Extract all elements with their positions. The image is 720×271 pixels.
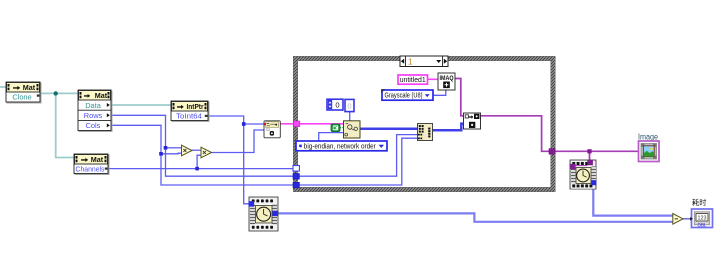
wire grayscale enum to imaq create [433,90,446,96]
svg-text:Cols: Cols [86,121,101,130]
svg-text:Data: Data [85,101,102,110]
subtract node [673,214,683,225]
case selector "1" [400,56,448,67]
svg-text:DBL: DBL [698,223,707,229]
svg-text:0: 0 [347,101,351,110]
wire ToInt64 out [208,116,264,124]
wire arraytoimage out (purple) [481,116,550,152]
invoke node Mat.Clone [6,82,41,103]
svg-text:Grayscale (U8): Grayscale (U8) [385,91,423,100]
svg-text:IntPtr: IntPtr [187,104,204,111]
wire unflatten out thick [360,127,418,130]
wire Channels branch to multiply2 [197,155,201,168]
svg-text:Image: Image [638,132,658,141]
string constant untitled1 [398,75,428,84]
wire Cols [111,125,294,185]
multiply M2 [201,147,212,158]
node junction teal [54,91,58,95]
wire Clone to Channels node (teal) [56,93,74,157]
enum Grayscale (U8) [381,89,433,100]
wire image branch to tick2 (purple) [589,151,591,161]
wire pink inside loop to unflatten [300,123,345,125]
svg-text:耗时: 耗时 [692,198,706,207]
IMAQ Create node [438,73,455,90]
tunnel cols [293,182,299,188]
wire multiply2 to DSNewPtr in2 [212,130,265,153]
wire ToInt64 branch to tick count 1 [244,124,250,204]
tick count 2 (film-strip clock) [570,160,596,189]
tunnel selector (channels) [293,166,299,172]
svg-text:untitled1: untitled1 [400,75,426,84]
wire Clone out (teal) [40,92,78,94]
enum big-endian, network order [296,141,387,151]
svg-text:Clone: Clone [12,92,31,101]
wire tick2 out [593,184,673,216]
svg-text:Mat: Mat [91,155,104,164]
svg-text:123: 123 [698,216,707,222]
wire Rows [111,115,294,176]
unflatten from string node [344,121,361,138]
wire Channels [108,168,294,170]
wire reshape out to arraytoimage [433,124,465,131]
numeric indicator 耗时 [690,198,712,229]
multiply M1 [182,145,193,156]
svg-text:Mat: Mat [23,83,36,92]
wire Cols branch to multiply [161,152,182,155]
tunnel pink [294,121,300,127]
wire Data to IntPtr (teal) [111,104,171,106]
invoke node Mat.Channels [74,154,109,175]
wire multiply1 to multiply2 [192,149,201,151]
wire array const to unflatten [349,112,351,122]
wire image out of loop (purple) [555,150,639,152]
wire boolean dashed [340,127,345,129]
wire rows inside loop to reshape dim1 [299,135,418,177]
Image indicator [638,132,659,161]
array constant U8 [327,99,354,111]
IMAQ ArrayToImage node [464,113,481,129]
wire tick1 out long [278,213,674,221]
svg-text:Rows: Rows [84,111,103,120]
wire Rows branch to multiply [166,147,182,149]
reshape array node [418,124,433,141]
property node Mat Data/Rows/Cols [78,90,112,132]
wire untitled1 to imaq create (pink) [428,78,439,80]
boolean constant (green) [331,124,340,132]
tick count 1 (film-strip clock) [249,197,279,231]
wire imaq create out (purple) [455,79,464,116]
invoke node IntPtr.ToInt64 [171,101,209,122]
case structure border [294,57,556,192]
DSNewPtr node [264,121,281,138]
tunnel rows [293,174,299,180]
svg-text:big-endian, network order: big-endian, network order [304,141,376,150]
svg-text:Mat: Mat [95,91,108,100]
svg-text:IMAQ: IMAQ [440,75,454,82]
svg-text:Channels: Channels [76,164,105,173]
svg-text:ToInt64: ToInt64 [176,111,202,120]
wire subtract out [683,218,693,220]
svg-text:1: 1 [408,57,413,66]
wire enum bigendian to unflatten [319,133,344,142]
wire cols inside loop to reshape dim2 [299,138,418,185]
tunnel purple image [549,149,555,155]
wire Mat in (teal) [0,86,6,88]
wire pink DSNewPtr to loop [280,123,294,125]
svg-text:0: 0 [335,101,339,110]
